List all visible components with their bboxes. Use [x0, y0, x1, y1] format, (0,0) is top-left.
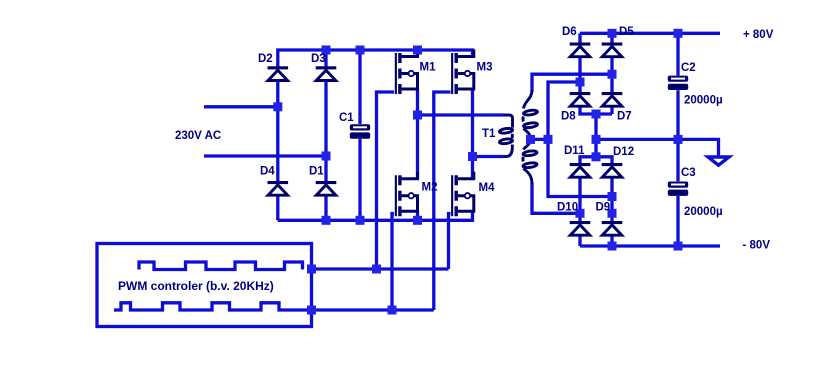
svg-text:D2: D2	[258, 53, 273, 65]
svg-text:230V AC: 230V AC	[175, 130, 221, 142]
svg-text:C2: C2	[681, 62, 696, 74]
svg-text:D4: D4	[260, 166, 275, 178]
svg-text:T1: T1	[482, 128, 496, 140]
svg-text:D3: D3	[311, 53, 326, 65]
svg-text:M4: M4	[479, 182, 496, 194]
svg-text:D8: D8	[561, 111, 576, 123]
svg-text:C1: C1	[339, 112, 354, 124]
svg-text:D6: D6	[562, 26, 577, 38]
svg-text:D11: D11	[564, 145, 585, 157]
svg-text:D10: D10	[557, 202, 578, 214]
svg-text:D9: D9	[596, 202, 611, 214]
svg-text:D5: D5	[619, 26, 634, 38]
svg-text:- 80V: - 80V	[743, 240, 771, 252]
svg-text:D1: D1	[309, 166, 324, 178]
svg-text:+ 80V: + 80V	[743, 29, 774, 41]
svg-text:D7: D7	[617, 111, 632, 123]
svg-text:M3: M3	[477, 61, 493, 73]
svg-text:20000µ: 20000µ	[684, 95, 723, 107]
svg-text:20000µ: 20000µ	[684, 206, 723, 218]
svg-text:M2: M2	[422, 182, 438, 194]
svg-text:M1: M1	[420, 62, 437, 74]
svg-text:C3: C3	[681, 167, 696, 179]
svg-text:PWM controler (b.v. 20KHz): PWM controler (b.v. 20KHz)	[118, 279, 274, 293]
svg-text:D12: D12	[613, 146, 634, 158]
